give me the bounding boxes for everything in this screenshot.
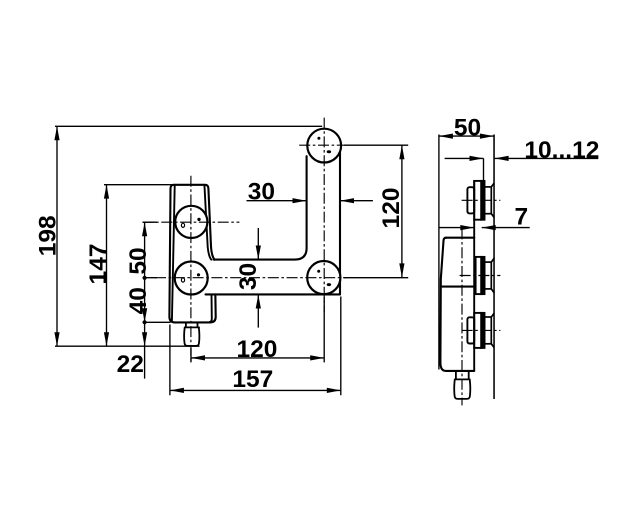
dimension 157 lines bbox=[170, 297, 341, 396]
dimension chain 50/40/22 line bbox=[143, 222, 171, 378]
front view: handle inner right draft line upper bbox=[205, 186, 212, 259]
mold mark dots top circle bbox=[317, 137, 320, 140]
rail line bbox=[493, 135, 495, 400]
dimension 120 right lines bbox=[143, 145, 409, 278]
arrows 157 bbox=[170, 388, 184, 393]
dimension 30 horizontal lines bbox=[247, 200, 373, 202]
dimension 10...12 lines bbox=[445, 158, 599, 181]
arrows 198 bbox=[54, 126, 59, 140]
centerline upper-left hole horizontal bbox=[143, 221, 240, 223]
side view: body top edge bbox=[446, 237, 474, 239]
arrows 50 side bbox=[439, 134, 453, 139]
boss circle upper-left bbox=[175, 206, 207, 238]
front view: handle inner left draft line bbox=[172, 186, 175, 321]
roller middle bbox=[476, 257, 495, 294]
front view: handle outer contour bbox=[169, 185, 215, 323]
arrows 147 bbox=[104, 185, 109, 199]
arrows 30 horizontal bbox=[293, 198, 307, 203]
svg-text:50: 50 bbox=[454, 114, 481, 141]
centerline side body vertical bbox=[461, 228, 463, 405]
roller bottom bbox=[467, 313, 494, 348]
boss circle lower-right bbox=[307, 261, 340, 294]
centerline side roller bottom bbox=[462, 329, 501, 331]
arrows 7 bbox=[460, 225, 474, 230]
mold mark dots lower-left circle bbox=[181, 278, 184, 282]
side view: pin barrel bbox=[454, 379, 470, 399]
centerline side roller middle bbox=[460, 275, 501, 277]
arrows 10...12 bbox=[470, 156, 484, 161]
dimension 120 bottom lines bbox=[191, 297, 324, 362]
arrows 30 vertical bbox=[256, 246, 261, 260]
arrows 120 right bbox=[399, 145, 404, 159]
front view: bottom pin barrel bbox=[184, 327, 199, 346]
dimension 50 side lines bbox=[439, 135, 494, 370]
arrows 120 bottom bbox=[191, 355, 205, 360]
svg-text:120: 120 bbox=[237, 336, 278, 363]
svg-text:120: 120 bbox=[378, 188, 405, 229]
roller top bbox=[467, 181, 494, 220]
side view: pin neck bbox=[455, 371, 470, 380]
dimension 147 lines bbox=[104, 185, 174, 347]
front view: vertical arm right edge bbox=[339, 152, 341, 295]
svg-text:30: 30 bbox=[248, 178, 275, 205]
dimension 30 vertical lines bbox=[257, 228, 259, 328]
centerline arm vertical bbox=[323, 118, 325, 313]
svg-text:30: 30 bbox=[235, 263, 262, 290]
svg-text:7: 7 bbox=[514, 204, 528, 231]
side view: body right edge with extension to roller bbox=[473, 181, 475, 371]
dimension 198 lines bbox=[55, 126, 322, 346]
svg-text:40: 40 bbox=[125, 287, 152, 314]
mold mark dots upper-left circle bbox=[181, 223, 184, 227]
boss circle lower-left bbox=[175, 262, 208, 295]
svg-text:198: 198 bbox=[34, 215, 61, 256]
svg-text:22: 22 bbox=[117, 351, 144, 378]
arrows chain 50/40/22 bbox=[142, 222, 147, 236]
centerline side roller top bbox=[462, 199, 501, 201]
side view: body left edge and bottom edge bbox=[440, 238, 474, 371]
centerline handle vertical bbox=[190, 176, 192, 362]
front view: bottom pin neck bbox=[185, 322, 199, 327]
side view: body step line bbox=[442, 286, 475, 288]
mold mark dots lower-right circle bbox=[317, 270, 320, 273]
svg-text:10...12: 10...12 bbox=[524, 137, 599, 164]
svg-text:50: 50 bbox=[125, 247, 152, 274]
front view: lower arm top edge and vertical arm left edge bbox=[214, 156, 307, 259]
junction dots chain bbox=[143, 276, 147, 280]
boss circle top bbox=[307, 129, 341, 163]
svg-text:157: 157 bbox=[232, 366, 273, 393]
dimension 7 lines bbox=[439, 227, 529, 229]
centerline top hole horizontal bbox=[299, 144, 344, 146]
front view: lower arm bottom edge bbox=[206, 293, 341, 295]
centerline lower holes horizontal bbox=[155, 277, 346, 279]
svg-text:147: 147 bbox=[85, 244, 112, 285]
front view: handle inner right draft line lower bbox=[210, 294, 212, 322]
